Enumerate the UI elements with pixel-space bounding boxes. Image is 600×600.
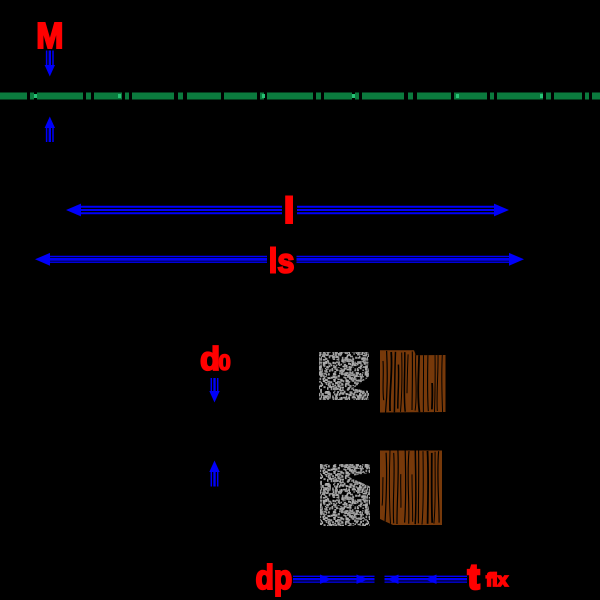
M arrow up bbox=[45, 117, 55, 143]
svg-text:ls: ls bbox=[269, 243, 295, 281]
svg-text:M: M bbox=[36, 15, 63, 56]
concrete block bottom bbox=[320, 464, 370, 526]
dimension tfix arrows bbox=[385, 575, 468, 584]
centerline bright dots bbox=[34, 94, 37, 98]
svg-text:l: l bbox=[284, 192, 294, 231]
svg-text:dp: dp bbox=[256, 559, 293, 597]
svg-text:t: t bbox=[468, 559, 479, 597]
svg-text:d: d bbox=[200, 340, 220, 377]
M arrow down bbox=[45, 51, 55, 77]
dimension dp arrows bbox=[293, 575, 375, 584]
dimension line l bbox=[66, 204, 509, 217]
wood board top bbox=[380, 350, 446, 413]
wood board bottom bbox=[380, 450, 442, 525]
do arrow up bbox=[209, 461, 219, 487]
label l bbox=[282, 195, 297, 225]
do arrow down bbox=[209, 378, 219, 403]
centerline axis bbox=[0, 93, 600, 100]
dimension line ls bbox=[35, 253, 524, 266]
svg-text:fix: fix bbox=[486, 570, 508, 590]
concrete block top bbox=[319, 352, 369, 400]
svg-text:0: 0 bbox=[219, 350, 231, 375]
label ls bbox=[267, 243, 297, 276]
